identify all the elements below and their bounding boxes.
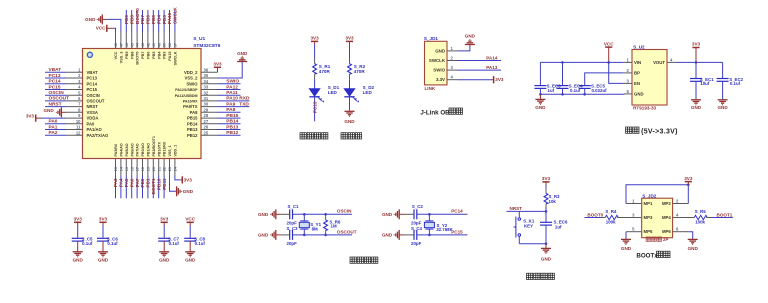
- resistor S_R5 100k: [673, 217, 695, 219]
- ground below S_EC1: [691, 100, 701, 105]
- wire net VBAT: [45, 71, 66, 73]
- svg-text:MP5: MP5: [644, 229, 653, 234]
- ground at U1 pin 23: [170, 176, 177, 192]
- svg-text:PA7: PA7: [135, 178, 140, 187]
- svg-text:GND: GND: [258, 212, 269, 217]
- svg-text:TXD: TXD: [239, 101, 249, 107]
- wire net PA12: [218, 89, 241, 91]
- node OSCIN junctions: [303, 213, 306, 216]
- switch S_K1 KEY: [518, 211, 520, 217]
- svg-text:1: 1: [632, 199, 635, 204]
- capacitor S_C1 20pF: [290, 209, 293, 219]
- J1 pin names: [429, 48, 446, 82]
- resistor S_R1 470R: [313, 64, 317, 74]
- power 3V3 at U1 pin 36: [217, 69, 219, 72]
- svg-text:MP1: MP1: [644, 201, 653, 206]
- svg-text:GND: GND: [85, 17, 96, 22]
- svg-text:24: 24: [174, 166, 178, 171]
- svg-text:VSS_2: VSS_2: [184, 76, 198, 81]
- svg-text:18: 18: [141, 167, 145, 171]
- wire net PA7: [136, 176, 138, 199]
- svg-text:VBAT: VBAT: [49, 67, 62, 73]
- wire net SWCLK: [174, 10, 176, 32]
- wire net PA6: [131, 176, 133, 199]
- svg-text:VSS_3: VSS_3: [120, 52, 124, 64]
- svg-text:PA4: PA4: [119, 178, 124, 187]
- node VOUT junction: [695, 61, 698, 64]
- svg-text:GND: GND: [382, 212, 393, 217]
- U2 pin names: [634, 60, 665, 97]
- U1 right pin numbers 36-25: [204, 67, 209, 135]
- wire net BOOT1: [152, 176, 154, 199]
- svg-text:41: 41: [152, 43, 156, 47]
- wire NRST: [545, 204, 547, 208]
- svg-text:PA9: PA9: [226, 101, 235, 107]
- svg-text:PA2: PA2: [49, 130, 58, 136]
- U1 right pin names: [175, 70, 198, 138]
- wire net PB15: [218, 117, 241, 119]
- svg-text:PB8: PB8: [130, 52, 134, 59]
- wire net PB9: [125, 10, 127, 32]
- svg-text:MP3: MP3: [644, 215, 653, 220]
- svg-text:PC15: PC15: [451, 229, 463, 234]
- ground at J2 pin 6: [688, 232, 692, 240]
- svg-text:SWCLK: SWCLK: [174, 51, 178, 65]
- resistor S_R2 470R: [348, 64, 352, 74]
- svg-text:BOOT0: BOOT0: [135, 8, 140, 24]
- wire net PB1: [147, 176, 149, 199]
- regulator U2 RT9193-33 body: [632, 50, 667, 106]
- wire net PC13: [314, 97, 316, 122]
- svg-text:VSS_1: VSS_1: [168, 145, 172, 156]
- svg-text:PB10/TX: PB10/TX: [157, 141, 161, 156]
- svg-text:PA10: PA10: [226, 96, 238, 102]
- svg-text:PA3/RX: PA3/RX: [114, 143, 118, 156]
- capacitor S_EC5 0.022uf: [579, 86, 591, 89]
- wire: [314, 74, 316, 79]
- U1 pin-1 marker: [87, 52, 92, 57]
- svg-text:PA5/AO: PA5/AO: [125, 143, 129, 156]
- microcontroller U1 STM32C8T6 body: [83, 49, 202, 159]
- wire net PA8: [218, 111, 241, 113]
- ground below S_C5: [73, 252, 83, 257]
- wire net PA11: [218, 94, 241, 96]
- wire: [349, 74, 351, 79]
- title power 5V to 3.3V: [626, 127, 640, 133]
- wire net PA0: [45, 123, 66, 125]
- ground at J2 pin 5: [625, 232, 627, 240]
- svg-text:PA5: PA5: [124, 178, 129, 187]
- svg-text:14: 14: [120, 166, 124, 171]
- wire PC14: [417, 213, 468, 215]
- connector J2 jumper body: [642, 198, 673, 238]
- node VIN junctions: [561, 61, 564, 64]
- svg-text:100k: 100k: [695, 220, 705, 225]
- svg-text:VOUT: VOUT: [653, 60, 665, 65]
- svg-text:PB13: PB13: [187, 127, 198, 132]
- svg-text:GND: GND: [435, 48, 445, 53]
- svg-text:37: 37: [174, 43, 178, 47]
- wire net PB7: [142, 10, 144, 32]
- svg-text:SWCLK: SWCLK: [173, 6, 178, 24]
- svg-text:100k: 100k: [606, 220, 616, 225]
- svg-text:PB6: PB6: [146, 15, 151, 24]
- svg-text:1uf: 1uf: [555, 224, 562, 229]
- svg-text:15: 15: [125, 167, 129, 171]
- svg-text:PB0/AO: PB0/AO: [141, 143, 145, 157]
- svg-text:30: 30: [204, 102, 209, 107]
- svg-text:SWIO: SWIO: [433, 68, 445, 73]
- capacitor S_C2 20pF: [414, 209, 417, 219]
- svg-text:BP: BP: [634, 71, 640, 76]
- svg-text:42: 42: [147, 43, 151, 47]
- node NRST junction: [545, 210, 548, 213]
- svg-text:GND: GND: [159, 258, 170, 263]
- svg-text:3V3: 3V3: [99, 217, 108, 222]
- svg-text:S_U1: S_U1: [193, 36, 205, 42]
- svg-text:PA12: PA12: [226, 84, 238, 90]
- svg-text:KEY: KEY: [524, 223, 533, 228]
- power 3V3 at U1 pin 9 VDDA: [42, 117, 67, 119]
- svg-text:GND: GND: [541, 256, 552, 261]
- svg-text:PC13: PC13: [312, 101, 317, 113]
- wire net PA5: [125, 176, 127, 199]
- svg-text:VCC: VCC: [96, 26, 106, 31]
- svg-text:PB0: PB0: [140, 178, 145, 187]
- svg-text:LINK: LINK: [425, 86, 436, 91]
- wire net PA9: [218, 106, 250, 108]
- svg-text:6: 6: [676, 227, 679, 232]
- svg-text:GND: GND: [691, 105, 702, 110]
- U1 bottom pin names: [114, 136, 177, 156]
- svg-text:GND: GND: [73, 258, 84, 263]
- svg-text:S_JD2: S_JD2: [642, 193, 656, 198]
- svg-text:GND: GND: [465, 34, 476, 39]
- wire net PA14: [458, 60, 502, 62]
- wire net OSCIN: [45, 94, 66, 96]
- svg-text:NRST: NRST: [87, 104, 99, 109]
- J2 value jumper-2P: [646, 237, 662, 242]
- svg-text:OSCIN: OSCIN: [87, 93, 100, 98]
- svg-text:13: 13: [114, 167, 118, 171]
- svg-text:28: 28: [204, 113, 209, 118]
- svg-text:1: 1: [78, 67, 81, 72]
- svg-text:PB1: PB1: [146, 178, 151, 187]
- svg-text:4: 4: [78, 85, 81, 90]
- svg-text:VSSA: VSSA: [87, 110, 98, 115]
- svg-text:GND: GND: [535, 105, 546, 110]
- svg-text:12: 12: [76, 130, 81, 135]
- svg-text:10uf: 10uf: [700, 81, 710, 86]
- svg-text:PA7/AO: PA7/AO: [136, 143, 140, 156]
- J2 pin leads: [626, 204, 688, 232]
- ground below S_EC2: [718, 100, 728, 105]
- svg-text:PB5: PB5: [151, 15, 156, 24]
- wire net PB3: [163, 10, 165, 32]
- svg-text:32.768K: 32.768K: [436, 227, 453, 232]
- svg-text:GND: GND: [634, 92, 644, 97]
- svg-text:(5V->3.3V): (5V->3.3V): [641, 128, 678, 135]
- svg-text:PA2/TX/AO: PA2/TX/AO: [87, 133, 110, 138]
- svg-text:S_C2: S_C2: [412, 204, 424, 209]
- svg-text:SWCLK: SWCLK: [429, 58, 446, 63]
- wire: [314, 45, 316, 59]
- wire net PC14: [45, 83, 66, 85]
- svg-text:S_C4: S_C4: [411, 226, 423, 231]
- node 3V3 junction: [687, 184, 690, 187]
- svg-text:PC15: PC15: [87, 87, 98, 92]
- svg-text:VCC: VCC: [185, 217, 195, 222]
- wire: [189, 226, 191, 238]
- svg-text:PC14: PC14: [87, 81, 98, 86]
- svg-text:S_R4: S_R4: [605, 209, 617, 214]
- svg-text:4: 4: [670, 57, 673, 62]
- svg-text:PB8: PB8: [129, 15, 134, 24]
- svg-text:3V3: 3V3: [542, 176, 551, 181]
- svg-text:VDD_2: VDD_2: [184, 70, 198, 75]
- svg-text:PA8: PA8: [226, 107, 235, 113]
- wire net PB14: [218, 123, 241, 125]
- svg-text:PC13: PC13: [49, 73, 61, 79]
- ground below S_C6: [98, 252, 108, 257]
- node PC15 junction: [428, 234, 431, 237]
- svg-text:31: 31: [204, 96, 209, 101]
- capacitor S_EC1 10uf: [695, 62, 697, 78]
- power 3V3 of BOOT block: [687, 182, 689, 185]
- wire net PB11: [163, 176, 165, 199]
- svg-text:PA11/USBDM: PA11/USBDM: [175, 94, 198, 98]
- svg-text:3V3: 3V3: [74, 217, 83, 222]
- LED S_D1: [309, 89, 324, 103]
- svg-text:BOOT0: BOOT0: [587, 212, 603, 217]
- power 3V3 at J1 pin 4: [458, 79, 493, 81]
- svg-text:OSCIN: OSCIN: [49, 90, 65, 96]
- wire PC15: [417, 234, 468, 236]
- U1 top pin leads: [116, 32, 175, 49]
- ground at U1 pin 35: [218, 62, 243, 78]
- svg-text:GND: GND: [258, 233, 269, 238]
- wire: [77, 226, 79, 238]
- svg-text:OSCOUT: OSCOUT: [49, 96, 70, 102]
- svg-text:PA1: PA1: [49, 124, 58, 130]
- capacitor S_C3 20pF: [290, 230, 293, 240]
- svg-text:GND: GND: [43, 108, 54, 113]
- svg-text:16: 16: [130, 167, 134, 171]
- svg-text:20pF: 20pF: [287, 221, 298, 226]
- wire EN link: [609, 62, 624, 83]
- svg-text:VDDA: VDDA: [87, 116, 99, 121]
- svg-text:PA1/AO: PA1/AO: [87, 127, 103, 132]
- svg-text:32: 32: [204, 90, 209, 95]
- J2 pin names MP1-MP6: [644, 201, 672, 234]
- svg-text:RT9193-33: RT9193-33: [633, 106, 656, 111]
- svg-text:PB7: PB7: [140, 15, 145, 24]
- svg-text:PA15: PA15: [168, 52, 172, 61]
- capacitor S_EC4 0.1uf: [562, 62, 564, 85]
- node ground junction: [545, 242, 548, 245]
- wire net PB5: [152, 10, 154, 32]
- U1 bottom pin numbers 13-24: [114, 166, 177, 171]
- svg-text:J-Link OB: J-Link OB: [420, 109, 450, 116]
- svg-text:PB4: PB4: [157, 51, 161, 59]
- svg-text:10: 10: [76, 119, 81, 124]
- svg-text:VDD_1: VDD_1: [174, 145, 178, 157]
- wire: [349, 97, 351, 111]
- wire net PC13: [45, 77, 66, 79]
- svg-text:33: 33: [204, 85, 209, 90]
- svg-text:S_R5: S_R5: [695, 209, 707, 214]
- svg-text:SWIO: SWIO: [226, 79, 239, 85]
- svg-text:PB1/AO: PB1/AO: [147, 143, 151, 157]
- wire net OSCOUT: [45, 100, 66, 102]
- svg-text:PA9/TX: PA9/TX: [183, 104, 198, 109]
- svg-text:BOOT0: BOOT0: [136, 52, 140, 65]
- svg-text:3V3: 3V3: [684, 176, 693, 181]
- svg-text:3V3: 3V3: [345, 36, 354, 41]
- svg-text:PB3: PB3: [162, 15, 167, 24]
- svg-text:3V3: 3V3: [692, 42, 701, 47]
- wire net BOOT0: [136, 10, 138, 32]
- node PC14 junction: [428, 213, 431, 216]
- svg-text:PB7: PB7: [141, 52, 145, 59]
- svg-text:PB6: PB6: [147, 52, 151, 59]
- wire: [189, 241, 191, 251]
- svg-text:2: 2: [451, 56, 454, 61]
- resistor S_R3 10k: [544, 193, 548, 204]
- svg-text:PB3: PB3: [163, 52, 167, 59]
- ground below S_C8: [185, 252, 195, 257]
- svg-text:PB4: PB4: [156, 15, 161, 24]
- svg-text:0.1uf: 0.1uf: [107, 241, 118, 246]
- svg-text:S_U2: S_U2: [633, 45, 645, 50]
- svg-text:PA11: PA11: [226, 90, 238, 96]
- wire net PB0: [142, 176, 144, 199]
- svg-text:PB11/RX: PB11/RX: [163, 141, 167, 156]
- wire net PA3: [115, 176, 117, 199]
- power 3V3 at U1 pin 24: [175, 176, 181, 180]
- svg-text:19: 19: [147, 167, 151, 171]
- svg-text:470R: 470R: [319, 69, 331, 74]
- capacitor S_C5 0.1uf: [72, 238, 84, 241]
- svg-text:GND: GND: [344, 119, 355, 124]
- svg-text:20pF: 20pF: [411, 241, 422, 246]
- J1 pin numbers 1-4: [451, 46, 454, 80]
- svg-text:40: 40: [157, 43, 161, 47]
- svg-text:GND: GND: [185, 258, 196, 263]
- svg-text:4: 4: [676, 213, 679, 218]
- wire VOUT to 3V3 rail: [675, 61, 722, 63]
- svg-text:S_C3: S_C3: [287, 226, 299, 231]
- svg-text:RXD: RXD: [239, 96, 250, 102]
- wire: [102, 241, 104, 251]
- node OSCOUT junctions: [303, 234, 306, 237]
- ground of reset circuit: [545, 244, 547, 249]
- ground at U1 pin 8 VSSA: [61, 111, 66, 113]
- wire BP to EC5: [585, 73, 624, 85]
- resistor S_R4 100k: [617, 217, 626, 219]
- svg-text:20pF: 20pF: [411, 221, 422, 226]
- wire net PB6: [147, 10, 149, 32]
- svg-text:4: 4: [451, 75, 454, 80]
- svg-text:5: 5: [627, 89, 630, 94]
- svg-text:PC15: PC15: [49, 84, 61, 90]
- svg-text:PA6/AO: PA6/AO: [130, 143, 134, 156]
- svg-text:3: 3: [451, 65, 454, 70]
- svg-text:3V3: 3V3: [495, 77, 504, 82]
- svg-text:OSCOUT: OSCOUT: [337, 229, 357, 234]
- U2 pin leads: [624, 62, 676, 94]
- title programmable-LED: [300, 133, 328, 139]
- ground below S_EC3: [539, 94, 541, 99]
- wire net PB13: [218, 129, 241, 131]
- svg-text:MP2: MP2: [662, 201, 671, 206]
- svg-text:PB14: PB14: [187, 121, 198, 126]
- svg-text:OSCOUT: OSCOUT: [87, 99, 105, 104]
- svg-text:35: 35: [204, 73, 209, 78]
- wire net PA1: [45, 129, 66, 131]
- svg-text:S_C1: S_C1: [288, 204, 300, 209]
- svg-text:10k: 10k: [549, 199, 557, 204]
- svg-text:3V3: 3V3: [311, 36, 320, 41]
- svg-text:PB13: PB13: [226, 124, 238, 130]
- svg-text:PA6: PA6: [129, 178, 134, 187]
- svg-text:21: 21: [157, 167, 161, 171]
- capacitor S_EC3 1uf: [539, 62, 541, 85]
- LED S_D2: [344, 89, 359, 103]
- crystal S_Y2 32.768K: [428, 214, 430, 221]
- svg-text:0.1uf: 0.1uf: [82, 241, 93, 246]
- U1 left pin numbers 1-12: [76, 67, 81, 135]
- svg-text:PB14: PB14: [226, 119, 238, 125]
- capacitor S_EC6 1uf: [545, 211, 547, 222]
- U1 left pin names: [87, 70, 110, 138]
- wire: [349, 45, 351, 59]
- svg-text:20: 20: [152, 167, 156, 171]
- capacitor S_EC2 0.1uf: [722, 62, 724, 78]
- wire: [163, 226, 165, 238]
- wire net PB8: [131, 10, 133, 32]
- capacitor S_C6 0.1uf: [97, 238, 109, 241]
- svg-text:PA10/RX: PA10/RX: [183, 100, 198, 104]
- wire OSCIN: [293, 213, 353, 215]
- svg-text:39: 39: [163, 43, 167, 47]
- svg-text:VIN: VIN: [634, 60, 641, 65]
- svg-text:NRST: NRST: [510, 206, 523, 211]
- svg-text:BOOT1: BOOT1: [717, 212, 733, 217]
- svg-text:7: 7: [78, 102, 81, 107]
- svg-text:BOOT1: BOOT1: [151, 178, 156, 194]
- svg-text:EN: EN: [634, 81, 640, 86]
- svg-text:3V3: 3V3: [213, 62, 222, 67]
- U1 top pin numbers 48-37: [114, 42, 177, 47]
- svg-text:PA0: PA0: [87, 121, 96, 126]
- svg-text:VBAT: VBAT: [87, 70, 99, 75]
- svg-text:3V3: 3V3: [184, 178, 193, 183]
- wire net PA4: [120, 176, 122, 199]
- svg-text:46: 46: [125, 43, 129, 47]
- svg-text:45: 45: [130, 43, 134, 47]
- svg-text:34: 34: [204, 79, 209, 84]
- svg-text:PA12/USBDP: PA12/USBDP: [175, 88, 198, 92]
- svg-text:20pF: 20pF: [287, 241, 298, 246]
- svg-text:25: 25: [204, 130, 209, 135]
- svg-text:3: 3: [632, 213, 635, 218]
- wire net PA10: [218, 100, 250, 102]
- title reset circuit: [527, 273, 555, 279]
- svg-text:STM32C8T6: STM32C8T6: [193, 43, 221, 49]
- svg-text:9: 9: [78, 113, 81, 118]
- wire net PA15: [169, 10, 171, 32]
